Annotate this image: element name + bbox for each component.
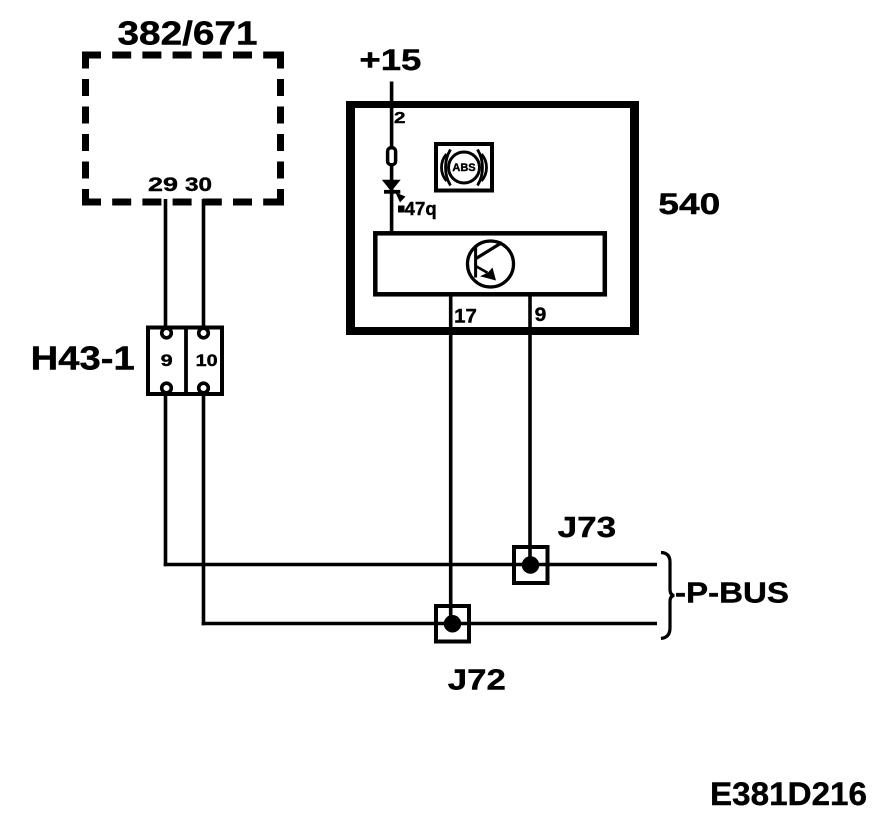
ABS warning lamp box: [436, 144, 492, 191]
svg-text:-P-BUS: -P-BUS: [675, 578, 789, 610]
wire pin9 to J73: [528, 296, 532, 565]
pin 9 top terminal: [162, 328, 172, 338]
svg-text:H43-1: H43-1: [31, 340, 135, 377]
svg-text:382/671: 382/671: [118, 15, 258, 52]
wire pin30 to H43-1 pin10: [202, 199, 206, 331]
svg-text:+15: +15: [359, 44, 421, 77]
ABS hydraulic unit 540 box: [346, 101, 639, 335]
ABS left arcs: [446, 150, 451, 186]
svg-text:9: 9: [535, 305, 547, 326]
junction J73 box: [514, 547, 548, 583]
svg-text:2: 2: [394, 110, 406, 127]
wire pin17 to J72: [449, 296, 453, 624]
ABS right arcs: [478, 150, 483, 186]
control module 382/671 dashed box: [82, 52, 284, 59]
wire H43 pin10 down: [202, 393, 206, 625]
diode D: [382, 180, 401, 192]
connector H43-1 body: [148, 328, 222, 395]
P-BUS brace: [661, 553, 675, 639]
P-bus lower wire: [202, 622, 657, 626]
pump circle: [468, 241, 514, 287]
svg-text:ABS: ABS: [452, 162, 475, 174]
pin 10 top terminal: [199, 328, 209, 338]
wire +15 into unit 540: [390, 82, 394, 234]
pump arrow head: [480, 268, 496, 281]
svg-text:30: 30: [185, 175, 212, 196]
svg-text:47q: 47q: [405, 199, 437, 219]
ABS lamp circle: [449, 152, 480, 183]
wire pin29 to H43-1 pin9: [164, 199, 168, 331]
pump diagonal chord: [476, 243, 502, 259]
junction J73 dot: [522, 556, 540, 574]
svg-text:29: 29: [148, 175, 178, 196]
svg-text:E381D216: E381D216: [710, 776, 867, 812]
junction J72 box: [436, 606, 469, 642]
svg-text:10: 10: [196, 352, 218, 370]
pin 10 bottom terminal: [199, 383, 209, 393]
pump relay inner box: [375, 233, 605, 294]
junction J72 dot: [444, 615, 462, 633]
svg-text:J72: J72: [448, 664, 506, 696]
connector H43-1 divider: [184, 326, 188, 397]
fuse element: [388, 148, 396, 165]
P-bus upper wire: [164, 563, 657, 567]
pump arrow tail: [477, 267, 488, 273]
svg-text:9: 9: [161, 352, 173, 370]
svg-text:J73: J73: [558, 512, 617, 544]
svg-text:540: 540: [658, 188, 720, 221]
47q leader arrow: [396, 193, 406, 203]
pin 9 bottom terminal: [162, 383, 172, 393]
wire H43 pin9 down: [164, 393, 168, 566]
pump vertical chord: [474, 246, 477, 278]
svg-text:17: 17: [454, 306, 477, 327]
